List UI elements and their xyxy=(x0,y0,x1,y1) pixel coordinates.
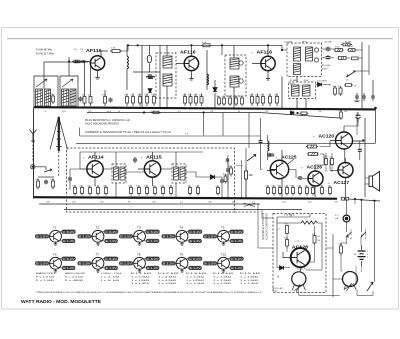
junction xyxy=(240,197,242,199)
wire xyxy=(368,45,370,75)
svg-text:1 = 1,45k: 1 = 1,45k xyxy=(240,283,260,285)
svg-text:1,5k: 1,5k xyxy=(95,185,99,187)
wire xyxy=(166,45,168,56)
resistor xyxy=(284,223,288,233)
junction xyxy=(251,108,253,110)
return wire 2 xyxy=(64,209,302,211)
resistor xyxy=(344,84,353,87)
svg-text:B 1,5V: B 1,5V xyxy=(36,235,48,239)
junction xyxy=(81,196,83,198)
diode xyxy=(318,83,322,87)
junction xyxy=(74,196,76,198)
svg-text:B 1,5V: B 1,5V xyxy=(120,235,132,239)
wire xyxy=(80,152,95,186)
junction xyxy=(184,107,186,109)
svg-text:CORRENTI E TENSIONI CON TS del: CORRENTI E TENSIONI CON TS del + PER 0,5… xyxy=(85,131,171,134)
wire xyxy=(34,76,58,108)
svg-text:RADIO ON-OFF: RADIO ON-OFF xyxy=(65,272,86,275)
wire xyxy=(326,153,332,172)
wire xyxy=(315,154,324,165)
diode xyxy=(148,89,152,93)
svg-text:1 = 1,35k: 1 = 1,35k xyxy=(131,283,151,285)
junction xyxy=(299,198,301,200)
svg-text:Tr: Tr xyxy=(83,157,85,160)
junction xyxy=(306,198,308,200)
resistor xyxy=(160,185,165,195)
transformer coil xyxy=(163,56,172,68)
resistor xyxy=(271,185,275,195)
ground xyxy=(266,76,270,80)
junction xyxy=(166,107,168,109)
svg-text:AF115: AF115 xyxy=(146,155,162,160)
resistor xyxy=(290,185,294,195)
wire xyxy=(288,159,308,179)
wire xyxy=(267,135,269,160)
coil xyxy=(268,141,270,151)
capacitor xyxy=(371,93,375,101)
svg-text:PILAS RESISTOR N.C. CAPACITA i: PILAS RESISTOR N.C. CAPACITA in pF xyxy=(85,119,131,122)
svg-text:1 = 1,5kΩ: 1 = 1,5kΩ xyxy=(158,283,177,285)
wire xyxy=(316,84,331,86)
junction xyxy=(190,44,192,46)
svg-text:F.L2 kΩ: F.L2 kΩ xyxy=(158,273,179,275)
svg-text:5,6k: 5,6k xyxy=(50,179,54,181)
resistor xyxy=(297,185,301,195)
capacitor xyxy=(297,176,303,180)
legend transistor T4 xyxy=(162,225,203,245)
wire xyxy=(104,90,106,108)
resistor xyxy=(128,185,132,195)
junction xyxy=(115,197,117,199)
wire xyxy=(166,86,168,108)
resistor xyxy=(342,197,349,200)
junction xyxy=(256,108,258,110)
svg-text:OSC. CH: OSC. CH xyxy=(101,273,122,275)
socket xyxy=(31,165,35,169)
svg-text:Tr: Tr xyxy=(313,136,315,139)
wire xyxy=(344,118,358,126)
resistor xyxy=(95,185,99,195)
tuning gang arrow xyxy=(62,79,73,87)
svg-text:MF2a: MF2a xyxy=(290,84,296,86)
svg-text:SALVO INDICAZIONE SPECIFICA: SALVO INDICAZIONE SPECIFICA xyxy=(85,123,119,126)
svg-text:1 = 1,6kΩ: 1 = 1,6kΩ xyxy=(131,280,150,282)
junction xyxy=(175,197,177,199)
resistor xyxy=(337,57,347,60)
dashed boundary xyxy=(172,164,186,183)
svg-text:T6: T6 xyxy=(53,252,57,256)
wire xyxy=(330,158,345,197)
svg-text:F = 1,5kΩ: F = 1,5kΩ xyxy=(36,280,55,282)
trimmer cap oval xyxy=(147,55,151,63)
wire xyxy=(258,204,273,248)
resistor xyxy=(144,94,148,107)
wire xyxy=(365,178,369,184)
wire xyxy=(375,109,377,143)
transistor AC120 xyxy=(313,132,353,149)
junction xyxy=(138,197,140,199)
svg-text:B 1,5V: B 1,5V xyxy=(163,235,175,239)
wire xyxy=(241,160,243,199)
svg-text:10k: 10k xyxy=(50,94,53,96)
junction xyxy=(299,108,301,110)
wire xyxy=(75,61,90,63)
junction xyxy=(221,107,223,109)
wire xyxy=(359,141,361,161)
return wire xyxy=(39,203,260,205)
wire xyxy=(356,113,358,136)
wire xyxy=(70,169,80,190)
junction xyxy=(356,108,358,110)
svg-text:1 = 4,5kΩ: 1 = 4,5kΩ xyxy=(158,276,177,278)
capacitor xyxy=(109,98,113,103)
junction xyxy=(206,107,208,109)
transformer coil xyxy=(163,74,172,86)
resistor xyxy=(182,94,186,107)
svg-text:MICRO ALT: MICRO ALT xyxy=(273,287,284,290)
wire xyxy=(277,250,290,268)
wire xyxy=(33,171,35,177)
switch contact xyxy=(347,71,356,77)
wire xyxy=(281,45,283,50)
junction xyxy=(273,197,275,199)
wire xyxy=(262,210,273,219)
svg-text:15k: 15k xyxy=(271,185,274,187)
junction xyxy=(141,107,143,109)
svg-text:0,05: 0,05 xyxy=(308,202,312,204)
svg-text:0,05: 0,05 xyxy=(290,111,294,113)
capacitor xyxy=(226,158,230,163)
resistor xyxy=(323,156,327,166)
junction xyxy=(97,197,99,199)
resistor xyxy=(195,185,199,195)
junction xyxy=(363,108,365,110)
svg-text:E 1,2V: E 1,2V xyxy=(231,266,243,270)
junction xyxy=(354,198,356,200)
transistor AF116 xyxy=(175,50,199,71)
wire xyxy=(306,250,322,270)
svg-text:AF116: AF116 xyxy=(86,48,102,53)
capacitor xyxy=(82,60,85,63)
wire xyxy=(346,199,348,215)
switch pole 1 xyxy=(347,232,352,237)
transistor AC127 xyxy=(328,163,353,186)
transformer coil xyxy=(180,167,185,180)
svg-text:E 1,2V: E 1,2V xyxy=(147,239,159,243)
ground bus top section xyxy=(34,107,376,109)
svg-text:8.2k: 8.2k xyxy=(102,94,106,96)
resistor xyxy=(72,185,76,195)
junction xyxy=(247,197,249,199)
resistor small xyxy=(352,57,359,60)
junction xyxy=(261,197,263,199)
trimmer xyxy=(239,61,243,65)
junction xyxy=(281,49,283,51)
legend transistor T5 xyxy=(203,225,244,245)
junction xyxy=(115,107,117,109)
junction xyxy=(143,111,145,113)
capacitor xyxy=(79,97,83,102)
capacitor xyxy=(133,157,137,163)
wire xyxy=(314,165,316,197)
resistor xyxy=(199,94,203,107)
wire xyxy=(128,44,282,46)
svg-text:Tr: Tr xyxy=(81,50,83,53)
trimmer xyxy=(239,79,243,83)
svg-text:TENSIONI MISURATE CON VOLTMETR: TENSIONI MISURATE CON VOLTMETRO A 20000 … xyxy=(36,291,262,294)
svg-text:C34: C34 xyxy=(152,202,155,204)
wire xyxy=(320,141,331,147)
junction xyxy=(340,108,342,110)
jack center xyxy=(345,217,349,221)
svg-text:F.L5 kΩ: F.L5 kΩ xyxy=(240,273,261,275)
resistor xyxy=(72,60,82,63)
capacitor xyxy=(267,153,271,157)
junction xyxy=(83,60,85,62)
resistor xyxy=(102,94,106,107)
resistor xyxy=(87,185,91,195)
capacitor xyxy=(44,180,48,185)
wire xyxy=(126,45,128,56)
transformer coil xyxy=(174,167,179,180)
svg-text:10k: 10k xyxy=(227,96,230,98)
speaker xyxy=(369,172,380,192)
svg-text:Fs FM 10.7 MHz: Fs FM 10.7 MHz xyxy=(36,53,54,56)
capacitor xyxy=(326,46,331,51)
svg-text:1 = 1,5kΩ: 1 = 1,5kΩ xyxy=(131,276,150,278)
junction xyxy=(146,107,148,109)
legend transistor T8 xyxy=(119,252,160,272)
svg-text:T3: T3 xyxy=(137,225,141,229)
svg-text:10k: 10k xyxy=(329,156,332,158)
junction xyxy=(79,107,81,109)
resistor xyxy=(79,185,83,195)
svg-text:1k: 1k xyxy=(239,96,241,98)
wire xyxy=(333,278,343,280)
svg-text:L.35 R.1 Ω: L.35 R.1 Ω xyxy=(284,214,295,216)
wire xyxy=(353,118,366,197)
wire xyxy=(126,69,128,90)
diode xyxy=(210,175,214,179)
svg-text:AC125: AC125 xyxy=(281,155,297,160)
transformer coil xyxy=(114,167,119,180)
svg-text:E 1,2V: E 1,2V xyxy=(63,239,75,243)
svg-text:Tr: Tr xyxy=(276,157,278,160)
junction xyxy=(162,197,164,199)
svg-text:mW: mW xyxy=(335,218,339,220)
svg-text:1 = 1,2kΩ: 1 = 1,2kΩ xyxy=(186,276,205,278)
junction xyxy=(374,107,377,110)
dashed boundary xyxy=(350,230,352,242)
resistor xyxy=(35,179,40,190)
potentiometer volume xyxy=(245,154,256,198)
wire xyxy=(354,199,356,204)
svg-text:1 = 1,6kΩ: 1 = 1,6kΩ xyxy=(240,276,259,278)
resistor zigzag xyxy=(301,221,317,224)
wire xyxy=(38,176,54,178)
junction xyxy=(321,198,323,200)
junction xyxy=(190,107,192,109)
svg-text:E 1,2V: E 1,2V xyxy=(106,266,118,270)
junction xyxy=(130,197,132,199)
svg-text:B 1,5V: B 1,5V xyxy=(120,262,132,266)
svg-text:0,05: 0,05 xyxy=(72,202,76,204)
wire xyxy=(347,237,362,245)
svg-text:COND 75: COND 75 xyxy=(297,269,307,271)
svg-text:0,05: 0,05 xyxy=(62,111,66,113)
svg-text:F = 2,2 kΩ: F = 2,2 kΩ xyxy=(65,276,84,278)
wire xyxy=(267,150,282,197)
transformer coil xyxy=(36,89,43,106)
resistor xyxy=(136,185,140,195)
transistor AF115 xyxy=(141,155,163,178)
svg-text:T10: T10 xyxy=(221,252,227,256)
svg-text:Tr: Tr xyxy=(141,157,143,160)
svg-text:58/75: 58/75 xyxy=(322,69,328,71)
wire xyxy=(372,80,374,93)
capacitor xyxy=(358,147,362,153)
ground bus middle section xyxy=(34,197,338,199)
svg-text:C 6,2V: C 6,2V xyxy=(189,257,201,261)
junction xyxy=(373,200,375,202)
resistor xyxy=(187,185,191,195)
wire xyxy=(281,77,283,109)
svg-text:Fs AM 467 kHz: Fs AM 467 kHz xyxy=(36,49,53,52)
svg-text:E 1,2V: E 1,2V xyxy=(63,266,75,270)
power switch xyxy=(367,282,373,291)
wire xyxy=(290,214,292,218)
resistor xyxy=(137,94,141,107)
svg-text:C29: C29 xyxy=(46,202,49,204)
transistor AF116 xyxy=(251,50,275,71)
resistor xyxy=(193,94,197,107)
resistor xyxy=(188,94,192,107)
svg-text:2,2k: 2,2k xyxy=(130,94,134,96)
svg-text:54.5F: 54.5F xyxy=(348,46,354,48)
junction xyxy=(360,199,362,201)
diode xyxy=(291,111,294,114)
svg-text:1 = 4,5kΩ: 1 = 4,5kΩ xyxy=(158,280,177,282)
wire xyxy=(305,99,307,109)
wire xyxy=(322,45,335,58)
junction xyxy=(195,107,197,109)
dashed boundary xyxy=(225,55,246,96)
svg-text:F.L1 kΩ: F.L1 kΩ xyxy=(131,273,152,275)
resistor xyxy=(327,185,331,195)
resistor xyxy=(334,49,344,52)
wire xyxy=(68,57,70,76)
svg-text:C38: C38 xyxy=(208,202,211,204)
resistor xyxy=(300,112,309,115)
junction xyxy=(52,106,54,108)
svg-text:10k: 10k xyxy=(136,185,139,187)
svg-text:C 6,2V: C 6,2V xyxy=(231,230,243,234)
junction xyxy=(227,197,229,199)
capacitor xyxy=(226,167,230,173)
resistor xyxy=(50,179,54,190)
junction xyxy=(127,44,129,46)
svg-text:2,2k: 2,2k xyxy=(338,110,342,112)
resistor xyxy=(151,94,155,107)
junction xyxy=(221,197,223,199)
resistor xyxy=(265,185,269,195)
resistor xyxy=(228,166,232,177)
svg-text:AC120: AC120 xyxy=(319,134,335,139)
junction xyxy=(267,197,269,199)
dashed boundary xyxy=(235,211,259,213)
trimmer xyxy=(314,58,318,62)
top rule xyxy=(7,38,393,40)
transformer coil xyxy=(303,85,311,96)
ground xyxy=(189,76,193,80)
svg-text:T2: T2 xyxy=(96,225,100,229)
wire xyxy=(261,118,263,170)
wire xyxy=(347,50,362,58)
junction xyxy=(286,198,288,200)
svg-text:I = 5. kΩ: I = 5. kΩ xyxy=(101,280,120,282)
svg-text:F = 1,6 kΩ: F = 1,6 kΩ xyxy=(36,276,55,278)
resistor xyxy=(168,185,172,195)
wire xyxy=(222,160,228,199)
svg-text:C 6,2V: C 6,2V xyxy=(63,230,75,234)
wire xyxy=(329,85,331,87)
resistor xyxy=(277,185,281,195)
resistor xyxy=(255,94,259,107)
wire xyxy=(277,214,322,251)
resistor xyxy=(88,94,92,107)
resistor xyxy=(103,185,107,195)
junction xyxy=(202,107,204,109)
dashed boundary xyxy=(67,148,235,212)
wire xyxy=(148,45,150,72)
resistor xyxy=(144,185,148,195)
svg-text:C 6,2V: C 6,2V xyxy=(231,257,243,261)
wire xyxy=(347,200,375,282)
junction xyxy=(97,107,99,109)
svg-text:C30: C30 xyxy=(318,111,321,113)
junction xyxy=(234,197,236,199)
svg-text:T8: T8 xyxy=(137,252,141,256)
coil xyxy=(207,74,209,85)
svg-text:1 = 1,3kΩ: 1 = 1,3kΩ xyxy=(186,283,205,285)
diode xyxy=(280,266,284,270)
dashed boundary xyxy=(112,164,126,183)
switch AM/FM xyxy=(44,169,52,172)
junction xyxy=(221,44,223,46)
wire xyxy=(79,128,81,137)
svg-text:1k: 1k xyxy=(304,185,306,187)
svg-text:E 1,2V: E 1,2V xyxy=(106,239,118,243)
junction xyxy=(262,108,264,110)
svg-text:C22: C22 xyxy=(210,111,213,113)
transistor AC126 xyxy=(301,164,323,186)
transistor AC125 xyxy=(270,155,297,179)
junction xyxy=(146,197,148,199)
wire xyxy=(341,243,347,271)
tuning gang arrow xyxy=(36,79,47,87)
svg-text:0.5s 63F50: 0.5s 63F50 xyxy=(317,81,328,83)
transformer coil xyxy=(70,89,76,106)
junction xyxy=(269,108,271,110)
junction xyxy=(137,44,139,46)
junction xyxy=(292,198,294,200)
wire xyxy=(133,71,160,73)
electrolytic cap xyxy=(356,112,361,122)
svg-text:T4: T4 xyxy=(180,225,184,229)
resistor xyxy=(130,94,134,107)
wire xyxy=(248,113,250,149)
legend transistor T1 xyxy=(35,225,76,245)
